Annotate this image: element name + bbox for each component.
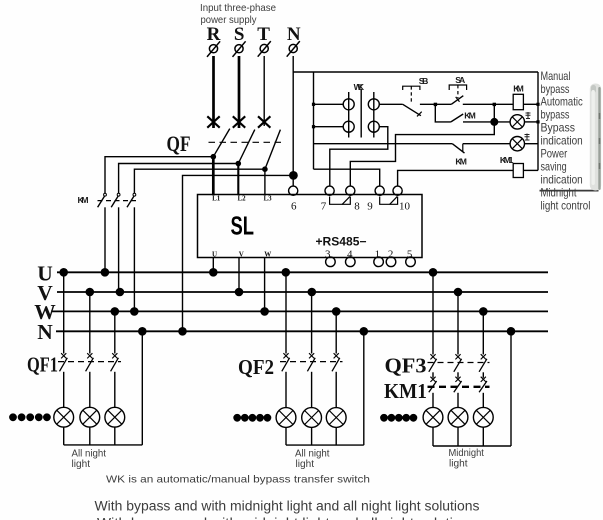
svg-text:With bypass and with midnight: With bypass and with midnight light and … [95, 499, 480, 514]
breaker QF3 pole [454, 354, 462, 372]
node bus junction [429, 268, 438, 277]
lamp power saving indication [510, 137, 524, 151]
selector switch SA [449, 85, 466, 98]
svg-text:N: N [37, 320, 53, 344]
caption all night light QF2 [295, 448, 330, 470]
node QF pole2 output [236, 161, 242, 167]
wire lamp1 left [494, 121, 510, 123]
breaker QF3 pole [479, 354, 487, 372]
svg-text:light: light [72, 458, 91, 470]
svg-text:QF2: QF2 [238, 355, 274, 379]
svg-text:U: U [212, 251, 217, 259]
node bus junction [86, 288, 95, 297]
breaker QF1 pole [60, 353, 68, 371]
svg-text:WK: WK [354, 82, 365, 92]
wire SL W to W bus [264, 258, 266, 312]
contact KM NC [452, 144, 464, 153]
svg-text:SB: SB [419, 76, 429, 86]
relay contact 7-8 [330, 197, 351, 205]
svg-text:6: 6 [291, 200, 297, 212]
wire QF2 pole to lamp [285, 372, 287, 408]
wire lamp to collector [63, 427, 65, 445]
transfer switch WK contacts [343, 92, 379, 138]
lamp all-night x=63.7 [54, 407, 74, 427]
svg-text:+RS485−: +RS485− [316, 237, 367, 249]
breaker QF pole 1 blade [213, 129, 230, 157]
svg-text:2: 2 [388, 248, 394, 260]
svg-text:QF3: QF3 [385, 353, 427, 377]
svg-text:L3: L3 [264, 195, 273, 203]
wire KM1 pole to lamp [482, 393, 484, 408]
relay contact 9-10 [380, 197, 398, 205]
lamp all-night x=286 [276, 408, 296, 428]
svg-text:W: W [264, 251, 271, 259]
wire KM NC to lamp2 [463, 143, 510, 145]
wire L2 to SL [237, 164, 239, 195]
terminal 10 [393, 186, 402, 195]
bus V [57, 291, 548, 293]
svg-text:bypass: bypass [541, 109, 570, 122]
wire KM pole3 to W bus [133, 207, 135, 311]
wire QF2 collector bar [286, 444, 364, 446]
wire KM1 coil to right rail [523, 169, 538, 171]
node bus junction [260, 307, 269, 316]
svg-text:Bypass: Bypass [541, 122, 576, 135]
svg-text:7: 7 [321, 200, 327, 212]
svg-text:Power: Power [541, 148, 568, 161]
wire WK bus to KM NC contact [314, 143, 453, 145]
svg-text:light: light [449, 457, 468, 469]
wire QF3 to KM1 pole [457, 372, 459, 378]
bus W [51, 310, 548, 312]
terminal 8 [346, 186, 355, 195]
wire phase R drop [212, 56, 215, 128]
wire KM pole1 to U bus [104, 207, 106, 272]
breaker QF pole terminal x-mark [207, 116, 219, 127]
wire WK feeder bus [313, 72, 315, 169]
wire QF3 feed x=458 [457, 292, 459, 355]
transfer switch WK actuator [360, 89, 362, 138]
wire QF2 pole to lamp [335, 372, 337, 408]
node bus junction [178, 327, 187, 336]
wire KM1 pole to lamp [457, 393, 459, 408]
terminal 5 [406, 257, 416, 267]
wire lamp to collector [114, 427, 116, 445]
ellipsis more lamps QF1 [9, 413, 51, 421]
lamp midnight x=458 [448, 407, 468, 427]
terminal 4 [346, 257, 356, 267]
wire lamp to collector [89, 427, 91, 445]
svg-text:light control: light control [541, 199, 591, 212]
wire WK row1 left [314, 103, 344, 105]
svg-text:indication: indication [541, 135, 583, 148]
wire QF3 to KM1 pole [432, 372, 434, 378]
node right rail lamp1 [536, 120, 539, 123]
wire QF3 collector bar [433, 445, 511, 447]
svg-text:T: T [257, 24, 270, 45]
caption midnight light [449, 447, 484, 470]
svg-text:SL: SL [231, 211, 255, 241]
lamp color mark red [526, 112, 531, 119]
wire QF2 feed x=336.2 [335, 311, 337, 353]
wire QF1 return to N [141, 331, 143, 445]
wire QF pole2 to KM pole2 [119, 164, 239, 194]
svg-text:Input three-phase: Input three-phase [200, 2, 276, 14]
annotation column right [541, 70, 591, 213]
svg-text:Manual: Manual [541, 70, 571, 83]
pushbutton SB [403, 86, 420, 104]
wire lamp2 right [525, 143, 539, 145]
node N junction [289, 171, 298, 180]
pushbutton SB blade [403, 104, 422, 116]
breaker QF1 pole [111, 353, 119, 371]
wire WK row2 to terminal 7 [330, 127, 388, 186]
lamp all-night x=114.8 [105, 407, 125, 427]
svg-text:4: 4 [347, 248, 353, 260]
node right rail top [536, 103, 539, 106]
svg-text:KM: KM [455, 156, 467, 166]
node bus junction [130, 307, 139, 316]
svg-text:KM: KM [513, 84, 524, 94]
svg-text:S: S [234, 24, 245, 45]
wire QF1 feed x=89.8 [89, 292, 91, 354]
breaker QF linkage dashed [209, 141, 282, 143]
contactor KM pole 1 [98, 193, 107, 207]
wire WK row2 left [314, 126, 344, 128]
contactor KM1 linkage dashed [428, 386, 490, 388]
contactor KM pole 3 [127, 193, 136, 207]
breaker QF3 linkage dashed [428, 362, 490, 364]
svg-text:1: 1 [375, 248, 381, 260]
svg-text:8: 8 [354, 200, 360, 212]
input power supply label [200, 2, 276, 26]
terminal 9 [375, 186, 384, 195]
breaker QF2 pole [332, 353, 340, 371]
wire terminal 10 to KM1 coil [398, 170, 514, 186]
wire phase T drop [263, 56, 265, 126]
wire QF1 feed x=114.8 [114, 311, 116, 353]
node bus junction [332, 307, 341, 316]
wire QF2 pole to lamp [311, 372, 313, 408]
svg-text:KM1: KM1 [384, 379, 427, 403]
wire control right rail [537, 72, 539, 170]
wire phase S drop [238, 56, 241, 128]
wire lamp to collector [311, 427, 313, 445]
wire N to left feeder [183, 175, 294, 331]
breaker QF1 linkage dashed [58, 361, 121, 363]
wire WK row1 right to SB [379, 103, 402, 105]
wire QF3 feed x=433 [432, 272, 434, 354]
wire L1 to SL [212, 157, 215, 195]
lamp bypass indication [510, 115, 524, 129]
node bus junction [138, 327, 147, 336]
caption all night light QF1 [72, 447, 107, 470]
svg-text:L1: L1 [212, 195, 221, 203]
bus U [57, 271, 548, 273]
lamp all-night x=336.2 [326, 408, 346, 428]
wire QF1 collector bar [64, 444, 143, 446]
wire N junction to terminal 6 [292, 175, 294, 186]
wire QF1 pole to lamp [114, 372, 116, 408]
svg-text:QF1: QF1 [27, 352, 58, 376]
terminal 3 [326, 257, 336, 267]
terminal 6 [289, 186, 298, 195]
svg-text:QF: QF [167, 131, 191, 156]
wire QF2 return to N [363, 331, 365, 445]
node bus junction [454, 288, 463, 297]
svg-text:indication: indication [541, 173, 583, 186]
node SB-SA junction [434, 103, 437, 106]
wire lamp1 right [525, 121, 539, 123]
svg-text:KM: KM [78, 195, 89, 205]
node bus junction [507, 327, 516, 336]
wire QF1 feed x=63.7 [63, 272, 65, 353]
node bus junction [360, 327, 369, 336]
wire junction drop [493, 104, 495, 122]
contactor KM1 pole [479, 377, 487, 393]
breaker QF1 pole [86, 353, 94, 371]
wire QF1 pole to lamp [63, 372, 65, 408]
contactor KM linkage dashed [98, 200, 137, 202]
wire QF3 return to N [510, 331, 512, 446]
wire QF2 feed x=286 [285, 272, 287, 353]
node bus junction [116, 288, 125, 297]
wire lamp to collector [457, 427, 459, 446]
breaker QF pole 3 blade [265, 130, 281, 170]
svg-text:10: 10 [399, 200, 411, 212]
svg-text:9: 9 [367, 200, 373, 212]
lamp midnight x=483.3 [473, 407, 493, 427]
svg-text:bypass: bypass [541, 83, 570, 96]
fuse N (circle with slash) [287, 41, 300, 57]
node WK bus tap 2 [312, 125, 315, 128]
strikethrough on Midnight [540, 190, 599, 192]
svg-text:Automatic: Automatic [541, 96, 583, 109]
wire QF1 pole to lamp [89, 372, 91, 408]
contactor KM1 pole [429, 377, 437, 393]
fuse S (circle with slash) [233, 41, 246, 57]
wire QF pole3 to KM pole3 [134, 169, 265, 193]
wire lamp to collector [335, 427, 337, 445]
ellipsis more lamps QF3 [380, 414, 417, 422]
selector switch SA blade [451, 96, 463, 105]
svg-text:KM1: KM1 [500, 155, 514, 165]
contactor KM1 pole [454, 377, 462, 393]
svg-text:Midnight: Midnight [541, 186, 578, 199]
breaker QF pole terminal x-mark [258, 116, 270, 127]
wire lamp to collector [432, 427, 434, 446]
wire KM pole2 to V bus [118, 207, 120, 292]
svg-text:L2: L2 [238, 195, 247, 203]
wire SL V to V bus [238, 258, 240, 293]
svg-text:With bypass and with midnight: With bypass and with midnight light and … [97, 516, 477, 520]
svg-text:light: light [296, 458, 315, 470]
wire QF3 to KM1 pole [482, 372, 484, 378]
node bus junction [111, 307, 120, 316]
contact KM aux (self hold) [435, 104, 494, 122]
wire N to control circuit top [293, 71, 538, 73]
fuse R (circle with slash) [207, 41, 220, 57]
lamp all-night x=311.6 [302, 408, 322, 428]
terminal 2 [386, 257, 396, 267]
node lamp junction [490, 118, 498, 126]
svg-text:V: V [239, 251, 244, 259]
wire SB to SA node [420, 103, 451, 105]
wire terminal 8 to lamp junction [350, 122, 494, 186]
wire lamp to collector [482, 427, 484, 446]
node bus junction [282, 268, 291, 277]
breaker QF2 pole [282, 353, 290, 371]
lamp all-night x=89.8 [80, 407, 100, 427]
breaker QF2 pole [307, 353, 315, 371]
terminal 7 [325, 186, 334, 195]
wire phase N drop [292, 56, 294, 175]
node bus junction [59, 268, 68, 277]
svg-text:saving: saving [541, 160, 567, 173]
terminal 1 [374, 257, 384, 267]
node QF pole1 output [211, 154, 217, 160]
svg-text:3: 3 [325, 248, 331, 260]
scrollbar artifact [590, 84, 601, 191]
breaker QF pole 2 blade [238, 130, 255, 164]
lamp midnight x=433 [423, 407, 443, 427]
node bus junction [209, 268, 218, 277]
node WK bus tap 1 [312, 103, 315, 106]
wire KM1 pole to lamp [432, 393, 434, 408]
ellipsis more lamps QF2 [233, 414, 271, 422]
coil KM1 [513, 164, 523, 178]
wire QF pole1 to KM pole1 [105, 157, 213, 194]
fuse T (circle with slash) [258, 41, 271, 57]
wire QF3 feed x=483.3 [482, 311, 484, 354]
node QF pole3 output [262, 166, 268, 172]
contactor KM pole 2 [111, 193, 120, 207]
wire terminal 9 to WK bus [314, 169, 380, 186]
node bus junction [308, 288, 317, 297]
node bus junction [101, 268, 110, 277]
svg-text:5: 5 [407, 248, 413, 260]
wire QF2 feed x=311.6 [311, 292, 313, 354]
svg-text:WK is an automatic/manual bypa: WK is an automatic/manual bypass transfe… [106, 475, 370, 486]
breaker QF3 pole [429, 354, 437, 372]
svg-text:R: R [207, 24, 221, 45]
wire L3 to SL [264, 169, 266, 194]
wire lamp to collector [285, 427, 287, 445]
controller SL box [198, 195, 423, 258]
breaker QF2 linkage dashed [280, 361, 343, 363]
wire SA to KM coil branch [463, 103, 513, 105]
lamp color mark green [525, 134, 530, 141]
svg-text:KM: KM [464, 111, 476, 121]
svg-text:SA: SA [455, 75, 465, 85]
coil KM [513, 94, 523, 109]
wire SL U to U bus [212, 258, 214, 273]
node KM aux junction [493, 103, 496, 106]
breaker QF pole terminal x-mark [233, 116, 245, 127]
bus N [56, 330, 548, 332]
node bus junction [479, 307, 488, 316]
node bus junction [235, 288, 244, 297]
wire KM coil to right rail [523, 103, 538, 105]
